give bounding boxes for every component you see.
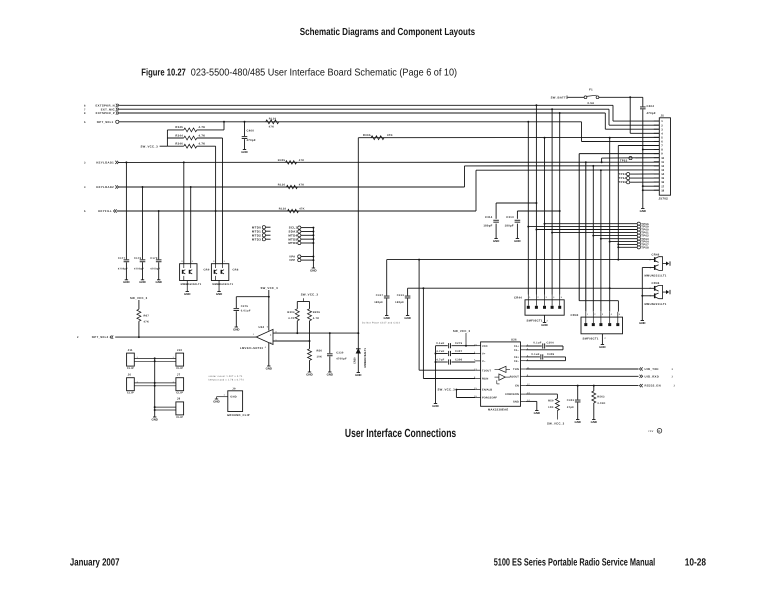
- svg-text:CLIP: CLIP: [176, 416, 183, 419]
- svg-text:J11: J11: [128, 349, 133, 352]
- svg-text:D: D: [658, 430, 660, 433]
- svg-text:4.7uF: 4.7uF: [436, 358, 444, 361]
- svg-text:C313: C313: [506, 216, 514, 219]
- svg-text:MTD3: MTD3: [252, 237, 261, 241]
- svg-text:180pF: 180pF: [505, 225, 514, 228]
- svg-text:GND: GND: [310, 268, 316, 272]
- svg-text:TP58: TP58: [641, 246, 649, 249]
- svg-text:J10: J10: [177, 349, 183, 352]
- svg-text:023-5500-480/485 User Interfac: 023-5500-480/485 User Interface Board Sc…: [191, 67, 457, 78]
- svg-text:GND: GND: [213, 399, 219, 403]
- svg-text:47K: 47K: [299, 208, 305, 211]
- svg-text:LMV321-SOT23: LMV321-SOT23: [240, 347, 263, 350]
- svg-text:TP52: TP52: [620, 160, 628, 163]
- svg-text:47K: 47K: [387, 134, 393, 137]
- svg-text:C178: C178: [134, 257, 142, 260]
- svg-text:MMBZ6V8ALT1: MMBZ6V8ALT1: [364, 348, 367, 368]
- svg-text:CR30: CR30: [354, 357, 357, 364]
- svg-text:180pF: 180pF: [374, 301, 383, 304]
- svg-text:C314: C314: [485, 216, 493, 219]
- svg-text:470pF: 470pF: [647, 112, 656, 115]
- svg-text:CLIP: CLIP: [127, 392, 134, 395]
- svg-text:GND: GND: [216, 292, 222, 296]
- svg-text:January 2007: January 2007: [70, 557, 120, 568]
- svg-text:UIO_TXD: UIO_TXD: [645, 367, 659, 371]
- svg-text:GND: GND: [155, 280, 161, 284]
- svg-text:470pF: 470pF: [247, 139, 256, 142]
- svg-text:Do Not Place C317 and C313: Do Not Place C317 and C313: [362, 321, 400, 324]
- svg-text:−: −: [270, 340, 272, 344]
- svg-text:MMUN2211LT1: MMUN2211LT1: [645, 275, 667, 278]
- svg-text:C304: C304: [547, 342, 555, 345]
- svg-text:GND: GND: [383, 316, 389, 320]
- svg-text:C400: C400: [247, 130, 255, 133]
- svg-text:0.01uF: 0.01uF: [241, 310, 251, 313]
- svg-text:C177: C177: [118, 257, 126, 260]
- svg-text:C307: C307: [455, 350, 463, 353]
- svg-text:C275: C275: [455, 342, 463, 345]
- svg-text:KEYLOAD2: KEYLOAD2: [96, 185, 114, 189]
- svg-text:SW_VCC_3: SW_VCC_3: [547, 422, 565, 426]
- svg-text:C1+: C1+: [514, 345, 520, 348]
- svg-text:GND: GND: [591, 420, 597, 424]
- svg-text:4.7K: 4.7K: [313, 317, 320, 320]
- svg-text:C2+: C2+: [514, 356, 520, 359]
- svg-text:CLIP: CLIP: [127, 367, 134, 370]
- svg-text:R346: R346: [175, 143, 183, 146]
- svg-text:11: 11: [661, 161, 664, 164]
- svg-text:GND: GND: [432, 404, 438, 408]
- svg-text:CR8: CR8: [233, 269, 239, 272]
- svg-text:GND: GND: [306, 372, 312, 376]
- svg-text:SW_VCC_3: SW_VCC_3: [130, 296, 148, 300]
- svg-text:3.01K: 3.01K: [597, 402, 605, 405]
- svg-text:4.7uF: 4.7uF: [436, 350, 444, 353]
- svg-text:17: 17: [661, 185, 664, 188]
- svg-text:47K: 47K: [299, 184, 305, 187]
- svg-text:MTD6: MTD6: [288, 241, 297, 245]
- svg-text:R67: R67: [144, 315, 150, 318]
- svg-text:GND: GND: [513, 401, 519, 404]
- svg-text:T1IN: T1IN: [513, 368, 519, 371]
- svg-text:47pF: 47pF: [567, 406, 574, 409]
- svg-text:T1OUT: T1OUT: [482, 369, 491, 372]
- svg-text:180pF: 180pF: [483, 225, 492, 228]
- svg-text:GND: GND: [266, 366, 272, 370]
- svg-text:V+: V+: [482, 353, 486, 356]
- svg-text:0.1uF: 0.1uF: [533, 342, 541, 345]
- svg-text:User Interface Connections: User Interface Connections: [345, 426, 457, 440]
- svg-text:R136: R136: [278, 184, 286, 187]
- svg-text:GROUND_CLIP: GROUND_CLIP: [227, 414, 250, 417]
- svg-text:VPA: VPA: [289, 256, 295, 259]
- svg-text:CR9: CR9: [204, 269, 210, 272]
- svg-text:0.5A: 0.5A: [588, 102, 595, 105]
- svg-text:OPT_SEL2: OPT_SEL2: [92, 335, 109, 339]
- svg-text:CLIP: CLIP: [176, 367, 183, 370]
- svg-text:10K: 10K: [548, 406, 554, 409]
- svg-text:2: 2: [77, 336, 79, 339]
- svg-text:4.7K: 4.7K: [288, 317, 295, 320]
- svg-text:0.1uF: 0.1uF: [531, 353, 539, 356]
- svg-text:TP53: TP53: [619, 173, 627, 176]
- svg-text:U26: U26: [511, 339, 517, 342]
- svg-text:R138: R138: [279, 208, 287, 211]
- svg-text:R139: R139: [269, 118, 277, 121]
- svg-text:GND: GND: [123, 280, 129, 284]
- svg-text:KEYLOAD1: KEYLOAD1: [96, 161, 114, 165]
- svg-text:0.1uF: 0.1uF: [436, 342, 444, 345]
- svg-text:12: 12: [661, 165, 664, 168]
- svg-text:CR43: CR43: [571, 314, 579, 317]
- svg-text:C1−: C1−: [514, 349, 520, 352]
- svg-text:4.7K: 4.7K: [199, 143, 206, 146]
- svg-text:RS232_EN: RS232_EN: [645, 384, 661, 388]
- svg-text:MAX3238EAE: MAX3238EAE: [488, 408, 508, 411]
- svg-text:3: 3: [84, 186, 86, 189]
- svg-text:3: 3: [84, 162, 86, 165]
- svg-text:47K: 47K: [144, 321, 150, 324]
- svg-text:SW_VCC_3: SW_VCC_3: [438, 388, 456, 392]
- svg-text:4700pF: 4700pF: [118, 268, 128, 271]
- svg-text:GND: GND: [574, 420, 580, 424]
- svg-text:J8: J8: [177, 398, 181, 401]
- svg-text:R563: R563: [597, 396, 605, 399]
- svg-text:U24: U24: [259, 326, 265, 329]
- svg-text:R1IN: R1IN: [482, 378, 488, 381]
- svg-text:4700pF: 4700pF: [134, 268, 144, 271]
- svg-text:+: +: [270, 333, 272, 337]
- svg-text:C2−: C2−: [514, 360, 520, 363]
- svg-text:CR45: CR45: [652, 282, 660, 285]
- svg-text:EXTSPKR_P: EXTSPKR_P: [96, 111, 115, 115]
- svg-text:J6: J6: [128, 374, 132, 377]
- svg-text:47K: 47K: [269, 126, 275, 129]
- svg-text:GND: GND: [493, 239, 499, 243]
- svg-text:UIO_RXD: UIO_RXD: [645, 374, 660, 378]
- svg-text:10K: 10K: [317, 356, 323, 359]
- svg-text:CLIP: CLIP: [176, 392, 183, 395]
- svg-text:14: 14: [661, 173, 664, 176]
- svg-text:rev: rev: [649, 429, 654, 433]
- svg-text:GND: GND: [151, 417, 157, 421]
- svg-text:R56: R56: [317, 350, 323, 353]
- svg-text:C179: C179: [150, 257, 158, 260]
- svg-text:18: 18: [661, 189, 664, 192]
- svg-text:5100 ES Series Portable Radio: 5100 ES Series Portable Radio Service Ma…: [494, 557, 656, 568]
- svg-text:R59: R59: [548, 400, 554, 403]
- svg-text:V−: V−: [482, 360, 486, 363]
- svg-text:J7: J7: [177, 374, 181, 377]
- svg-text:SMF05CT1: SMF05CT1: [583, 337, 599, 340]
- svg-text:10: 10: [661, 157, 664, 160]
- svg-text:R204: R204: [287, 311, 295, 314]
- svg-text:R305: R305: [278, 159, 286, 162]
- svg-text:GND: GND: [233, 327, 239, 331]
- svg-text:R344: R344: [175, 134, 183, 137]
- svg-text:KEYFILL: KEYFILL: [98, 209, 112, 213]
- svg-text:VCC: VCC: [482, 345, 488, 348]
- svg-text:R1OUT: R1OUT: [510, 375, 520, 378]
- svg-text:GND: GND: [241, 150, 247, 154]
- svg-text:GND: GND: [640, 209, 646, 213]
- svg-text:C317: C317: [376, 294, 384, 297]
- svg-text:GND: GND: [534, 411, 540, 415]
- svg-text:10-28: 10-28: [685, 557, 706, 568]
- svg-text:C375: C375: [241, 305, 249, 308]
- svg-text:C404: C404: [647, 105, 655, 108]
- svg-text:13: 13: [661, 169, 664, 172]
- svg-text:keepout pad x 1.78 x 0.774: keepout pad x 1.78 x 0.774: [209, 379, 245, 382]
- svg-text:VPP: VPP: [289, 259, 295, 262]
- svg-text:FORCEON: FORCEON: [505, 393, 519, 396]
- svg-text:4.7K: 4.7K: [199, 134, 206, 137]
- svg-text:7: 7: [84, 108, 86, 111]
- svg-text:SW_VCC_3: SW_VCC_3: [260, 286, 278, 290]
- svg-text:47K: 47K: [299, 159, 305, 162]
- svg-text:CR46: CR46: [652, 253, 660, 256]
- svg-text:R206: R206: [313, 311, 321, 314]
- svg-text:J9: J9: [232, 387, 236, 390]
- svg-text:C313: C313: [397, 294, 405, 297]
- svg-text:8: 8: [84, 104, 86, 107]
- svg-text:C306: C306: [455, 358, 463, 361]
- svg-text:MMBD6050LT1: MMBD6050LT1: [181, 283, 202, 286]
- svg-text:J5: J5: [661, 115, 665, 118]
- svg-text:GND: GND: [139, 280, 145, 284]
- svg-text:GND: GND: [230, 395, 237, 398]
- svg-text:TP54: TP54: [619, 177, 627, 180]
- svg-text:4700pF: 4700pF: [336, 358, 347, 361]
- svg-text:R30A: R30A: [363, 134, 371, 137]
- svg-text:GND: GND: [404, 316, 410, 320]
- svg-text:15: 15: [661, 177, 664, 180]
- svg-text:C305: C305: [547, 353, 555, 356]
- svg-text:Schematic Diagrams and Compone: Schematic Diagrams and Component Layouts: [300, 27, 476, 38]
- svg-text:C330: C330: [336, 352, 344, 355]
- svg-text:GND: GND: [184, 292, 190, 296]
- svg-text:SW_BATT: SW_BATT: [551, 95, 566, 99]
- svg-text:EN/ALB: EN/ALB: [482, 389, 492, 392]
- svg-text:EN: EN: [515, 385, 519, 388]
- svg-text:SW_VCC_3: SW_VCC_3: [141, 144, 159, 148]
- svg-text:MMUN2211LT1: MMUN2211LT1: [645, 303, 667, 306]
- svg-text:16: 16: [661, 181, 664, 184]
- svg-text:5: 5: [84, 210, 86, 213]
- svg-text:GND: GND: [327, 372, 333, 376]
- svg-text:GND: GND: [639, 321, 645, 325]
- svg-text:5: 5: [84, 121, 86, 124]
- svg-text:SW_VCC_3: SW_VCC_3: [301, 292, 319, 296]
- svg-text:3: 3: [674, 385, 676, 388]
- svg-text:OPT_SEL1: OPT_SEL1: [97, 120, 114, 124]
- svg-text:SW_VCC_3: SW_VCC_3: [453, 329, 471, 333]
- svg-text:8: 8: [84, 112, 86, 115]
- svg-text:CR44: CR44: [514, 297, 522, 300]
- svg-text:GND: GND: [355, 373, 361, 377]
- svg-text:4.7K: 4.7K: [199, 126, 206, 129]
- svg-text:MMBD6050LT1: MMBD6050LT1: [212, 283, 233, 286]
- svg-text:4700pF: 4700pF: [150, 268, 160, 271]
- svg-text:3: 3: [672, 375, 674, 378]
- svg-text:180pF: 180pF: [395, 301, 404, 304]
- svg-text:GND: GND: [541, 323, 547, 327]
- svg-text:J5702: J5702: [659, 197, 669, 201]
- svg-text:FORCEOFF: FORCEOFF: [482, 397, 497, 400]
- svg-text:C303: C303: [567, 399, 575, 402]
- svg-text:GND: GND: [599, 345, 605, 349]
- svg-text:3: 3: [672, 368, 674, 371]
- svg-text:TP55: TP55: [619, 181, 627, 184]
- svg-text:GND: GND: [514, 239, 520, 243]
- svg-text:Figure 10.27: Figure 10.27: [141, 67, 186, 78]
- svg-text:solder mount 1.307 x 0.74: solder mount 1.307 x 0.74: [209, 375, 243, 378]
- svg-text:F1: F1: [589, 89, 593, 92]
- svg-text:R345: R345: [175, 126, 183, 129]
